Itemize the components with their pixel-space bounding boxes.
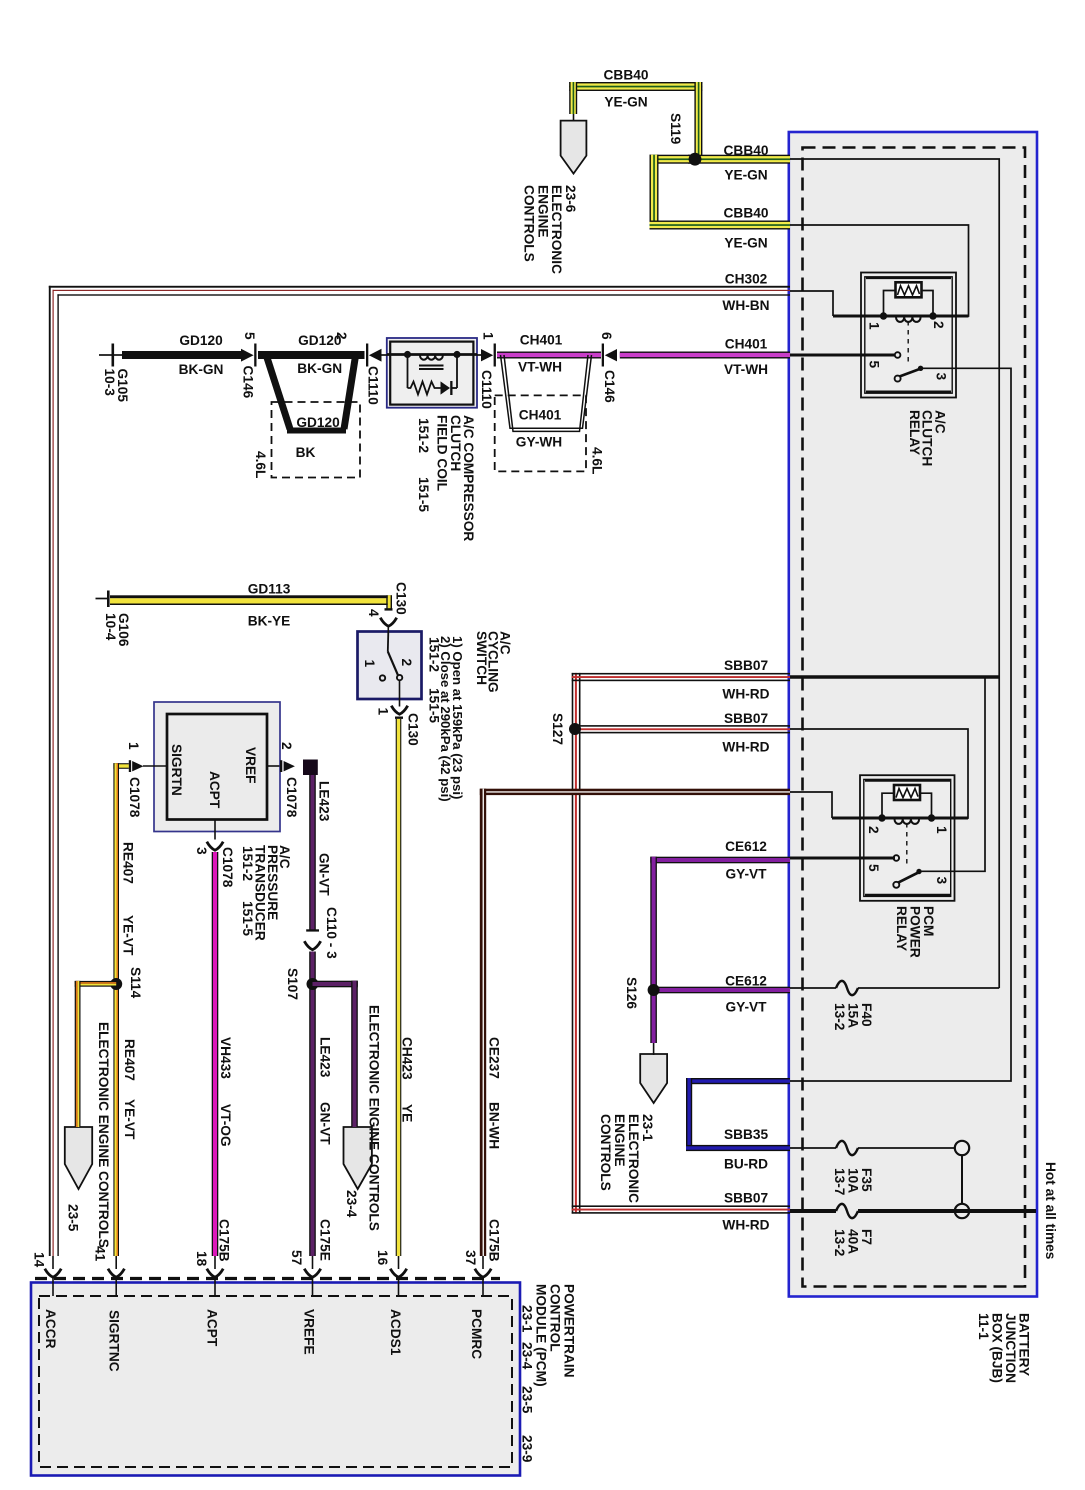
svg-text:CH423: CH423 [400, 1037, 415, 1080]
svg-text:SIGRTN: SIGRTN [169, 744, 184, 796]
svg-text:CBB40: CBB40 [724, 143, 769, 158]
relay switch contacts [895, 352, 901, 358]
svg-text:2: 2 [866, 826, 881, 834]
inline connector C110 pin 3 [306, 929, 319, 931]
svg-text:C110 - 3: C110 - 3 [324, 907, 339, 959]
svg-text:C130: C130 [394, 582, 409, 615]
wire CH423 YE from switch to PCM pin 16 [391, 680, 407, 1256]
svg-text:GY-VT: GY-VT [725, 1000, 767, 1015]
svg-text:WH-BN: WH-BN [722, 298, 769, 313]
inline connector C1110 pin 1 [481, 349, 493, 361]
inline connector C1110 pin 2 [366, 344, 368, 367]
PCM pin 14 entry arrow [45, 1256, 61, 1296]
fuse F7 40A [836, 1204, 858, 1218]
svg-text:23-5: 23-5 [66, 1204, 81, 1232]
svg-text:6: 6 [599, 332, 614, 340]
svg-text:ACDS1: ACDS1 [388, 1309, 403, 1356]
svg-text:VT-OG: VT-OG [218, 1104, 233, 1147]
svg-text:VT-WH: VT-WH [724, 362, 768, 377]
svg-text:GN-VT: GN-VT [318, 1102, 333, 1145]
svg-text:151-2: 151-2 [416, 418, 431, 453]
svg-text:23-4: 23-4 [520, 1342, 535, 1370]
svg-text:CH302: CH302 [725, 272, 768, 287]
wire CBB40 YE-GN row 2 to BJB [650, 221, 791, 230]
svg-text:ACCR: ACCR [43, 1309, 58, 1349]
wire between battery terminals [961, 1155, 963, 1203]
pin 2 [267, 765, 280, 767]
svg-text:VREF: VREF [243, 747, 258, 784]
svg-text:YE-GN: YE-GN [724, 168, 767, 183]
svg-text:VREFE: VREFE [302, 1309, 317, 1355]
svg-text:C1078: C1078 [220, 847, 235, 888]
A/C cycling switch [358, 632, 422, 700]
svg-text:C130: C130 [406, 713, 421, 746]
relay coil resistor [896, 282, 922, 297]
svg-text:GD120: GD120 [296, 415, 340, 430]
svg-text:ACPT: ACPT [207, 771, 222, 809]
svg-text:S114: S114 [128, 967, 143, 999]
connector symbol 23-5 electronic engine controls [65, 1127, 92, 1189]
svg-text:151-2: 151-2 [240, 846, 255, 881]
fuse F40 15A [836, 981, 858, 995]
svg-text:S127: S127 [550, 713, 565, 745]
fuse F35 10A [836, 1141, 858, 1155]
wire RE407 YE-VT from transducer pin 1 to PCM pin 41 [113, 763, 128, 1256]
svg-text:BK: BK [296, 445, 316, 460]
connector C175 dashed line [35, 1277, 500, 1280]
svg-text:3: 3 [194, 847, 209, 855]
svg-text:C1078: C1078 [284, 777, 299, 818]
PCM pin 41 entry arrow [108, 1256, 124, 1296]
svg-text:BK-GN: BK-GN [297, 361, 342, 376]
svg-text:23-1: 23-1 [520, 1305, 535, 1333]
svg-text:ACPT: ACPT [205, 1309, 220, 1347]
svg-text:SBB07: SBB07 [724, 658, 769, 673]
svg-text:151-2: 151-2 [427, 637, 442, 672]
wire CBB40 YE-GN top run from connector 23-6 to splice S119 [569, 82, 702, 156]
svg-text:VT-WH: VT-WH [518, 360, 562, 375]
splice S107 [307, 978, 319, 990]
wire CE612 row2 to fuse F40 [790, 987, 836, 989]
PCM power relay [860, 775, 955, 901]
svg-text:CH401: CH401 [519, 408, 562, 423]
svg-text:C175B: C175B [487, 1219, 502, 1262]
connector symbol 23-4 electronic engine controls [343, 1127, 371, 1189]
PCM pin 16 entry arrow [390, 1256, 406, 1296]
svg-text:CBB40: CBB40 [724, 206, 769, 221]
svg-text:YE-GN: YE-GN [604, 95, 647, 110]
splice S127 [569, 723, 581, 735]
svg-text:C175B: C175B [217, 1219, 232, 1262]
svg-text:RE407: RE407 [122, 1039, 137, 1081]
svg-text:RE407: RE407 [121, 842, 136, 884]
svg-text:1: 1 [867, 322, 882, 330]
svg-text:1: 1 [376, 708, 391, 716]
svg-text:151-5: 151-5 [427, 688, 442, 723]
svg-text:5: 5 [866, 864, 881, 872]
svg-text:37: 37 [463, 1250, 478, 1266]
svg-text:C175E: C175E [318, 1219, 333, 1261]
svg-text:151-5: 151-5 [240, 901, 255, 936]
wire VH433 VT-OG from transducer pin 3 to PCM pin 18 [207, 820, 223, 1257]
wire GD120 segment 2 with loop [258, 351, 365, 359]
wire A/C relay pin 3 down to SBB35 [790, 368, 1011, 1081]
powertrain control module PCM box [31, 1279, 520, 1476]
svg-text:16: 16 [375, 1250, 390, 1266]
svg-text:BN-WH: BN-WH [487, 1102, 502, 1149]
battery terminal circle bottom [955, 1204, 969, 1218]
svg-text:S126: S126 [624, 977, 639, 1009]
svg-text:3: 3 [934, 877, 949, 885]
svg-text:CE237: CE237 [487, 1037, 502, 1079]
svg-text:5: 5 [242, 332, 257, 340]
svg-text:LE423: LE423 [317, 781, 332, 822]
wire LE423 GN-VT from transducer pin 2 to PCM pin 57 [303, 760, 321, 1257]
connector symbol 23-6 electronic engine controls [561, 121, 587, 174]
svg-text:CE612: CE612 [725, 974, 767, 989]
svg-text:41: 41 [93, 1246, 108, 1262]
twisted loop CH401/GY-WH [501, 355, 592, 428]
svg-text:YE-GN: YE-GN [724, 236, 767, 251]
svg-text:4.6L: 4.6L [590, 447, 605, 474]
wire CH302 to A/C relay pin 1 [790, 291, 833, 316]
wire CBB40 row2 to A/C relay pin 2 [790, 225, 969, 316]
svg-text:SBB35: SBB35 [724, 1127, 769, 1142]
ground G106 [96, 598, 108, 600]
wire PCM relay coil line [832, 817, 968, 820]
svg-text:BK-GN: BK-GN [179, 362, 224, 377]
BJB internal black lines [790, 159, 1011, 1204]
battery junction box BJB [789, 132, 1037, 1297]
svg-text:YE-VT: YE-VT [121, 915, 136, 956]
wire CH302 WH-BN from BJB to PCM pin 14 [49, 286, 790, 1256]
wire CH401 VT-WH row [477, 344, 790, 472]
wire CH401 to A/C relay pin 5 [790, 354, 895, 357]
svg-text:SBB07: SBB07 [724, 711, 769, 726]
svg-text:ELECTRONIC ENGINE CONTROLS: ELECTRONIC ENGINE CONTROLS [96, 1022, 111, 1248]
svg-text:BU-RD: BU-RD [724, 1157, 768, 1172]
svg-text:CH401: CH401 [520, 333, 563, 348]
PCM pin 18 entry arrow [207, 1256, 223, 1296]
wire SBB07 row2 to PCM relay pin 1 [790, 729, 968, 818]
svg-text:C146: C146 [602, 370, 617, 403]
svg-text:CE612: CE612 [725, 839, 767, 854]
connector symbol 23-1 electronic engine controls [640, 1054, 667, 1103]
inline connector C146 pin 5 [241, 349, 254, 362]
svg-text:GY-VT: GY-VT [725, 867, 767, 882]
svg-text:CBB40: CBB40 [604, 68, 649, 83]
wire A/C relay coil line [833, 315, 969, 318]
svg-text:2: 2 [334, 332, 349, 340]
ground G105 [99, 354, 112, 356]
svg-text:SBB07: SBB07 [724, 1191, 769, 1206]
wire PCM relay pin 3 to SBB07 feed [919, 677, 985, 871]
svg-text:23-9: 23-9 [520, 1435, 535, 1463]
relay switch contacts [894, 855, 900, 861]
wire CBB40 YE-GN row 1 to BJB [650, 155, 791, 230]
svg-text:PCMRC: PCMRC [469, 1309, 484, 1359]
battery terminal circle top [955, 1141, 969, 1155]
splice S126 [648, 984, 660, 996]
wire GD120 BK-GN row [99, 344, 387, 478]
wire SBB35 to fuse F35 [790, 1147, 836, 1149]
coil windings [420, 356, 443, 360]
relay coil [896, 317, 921, 322]
wire SBB07 WH-RD vertical + three rows [572, 673, 790, 1214]
inline connector C146 pin 6 [602, 344, 604, 367]
svg-text:1: 1 [481, 332, 496, 340]
relay coil resistor [894, 785, 920, 800]
svg-text:GN-VT: GN-VT [317, 853, 332, 896]
svg-text:YE: YE [400, 1104, 415, 1122]
svg-text:GD120: GD120 [179, 333, 223, 348]
wire LE423 branch to connector 23-4 [313, 981, 358, 1127]
A/C pressure transducer [129, 702, 295, 832]
svg-text:YE-VT: YE-VT [122, 1099, 137, 1140]
svg-text:14: 14 [32, 1252, 47, 1268]
svg-text:18: 18 [194, 1251, 209, 1267]
A/C compressor clutch field coil [387, 338, 477, 408]
wire CE612 GY-VT rows + vertical [650, 857, 790, 1055]
wire CE237 to PCM relay pin 2 [790, 792, 832, 818]
svg-text:2: 2 [399, 659, 414, 667]
svg-text:4: 4 [366, 609, 381, 617]
svg-text:2: 2 [931, 321, 946, 329]
svg-text:WH-RD: WH-RD [722, 1218, 769, 1233]
wire CE612 to PCM relay pin 5 [790, 857, 895, 860]
svg-text:WH-RD: WH-RD [722, 687, 769, 702]
svg-text:C1078: C1078 [127, 777, 142, 818]
splice S119 [689, 153, 702, 166]
svg-text:C1110: C1110 [366, 366, 381, 405]
svg-text:1: 1 [934, 826, 949, 834]
svg-text:1: 1 [362, 660, 377, 668]
wire RE407 branch to connector 23-5 [75, 981, 117, 1127]
svg-text:C146: C146 [241, 366, 256, 399]
wire GD113 BK-YE row [96, 591, 397, 633]
svg-text:3: 3 [934, 373, 949, 381]
wire SBB35 BU-RD loop [686, 1078, 790, 1151]
wire SBB07 row1 feed thick [790, 675, 999, 678]
svg-text:CH401: CH401 [725, 337, 768, 352]
svg-text:2: 2 [279, 742, 294, 750]
svg-text:ELECTRONIC ENGINE CONTROLS: ELECTRONIC ENGINE CONTROLS [367, 1005, 382, 1231]
svg-text:151-5: 151-5 [416, 477, 431, 512]
svg-text:GD113: GD113 [248, 582, 291, 597]
wire CBB40 feed inside BJB [790, 159, 999, 988]
svg-text:GY-WH: GY-WH [516, 435, 562, 450]
svg-text:57: 57 [289, 1250, 304, 1266]
relay coil [895, 819, 920, 824]
PCM pin 57 entry arrow [304, 1256, 320, 1296]
suppression resistor and diode loop [408, 355, 458, 395]
svg-text:LE423: LE423 [318, 1037, 333, 1078]
svg-text:23-4: 23-4 [344, 1190, 359, 1218]
svg-text:S107: S107 [285, 968, 300, 1000]
wire CE237 BN-WH vertical + row to PCM power relay [480, 789, 790, 1256]
A/C clutch relay [861, 273, 956, 398]
svg-text:SIGRTNC: SIGRTNC [107, 1310, 122, 1372]
svg-text:BK-YE: BK-YE [248, 613, 291, 628]
svg-text:WH-RD: WH-RD [722, 740, 769, 755]
splice S114 [110, 978, 122, 990]
PCM pin 37 entry arrow [475, 1256, 491, 1296]
svg-text:23-5: 23-5 [520, 1386, 535, 1414]
svg-text:1: 1 [126, 742, 141, 750]
pin 1 [129, 760, 131, 772]
svg-text:S119: S119 [668, 113, 683, 145]
svg-text:C1110: C1110 [479, 370, 494, 409]
svg-text:5: 5 [867, 361, 882, 369]
svg-text:Hot at all times: Hot at all times [1043, 1162, 1058, 1260]
wire SBB07 row3 hot feed thick with fuse F7 [790, 1209, 1036, 1213]
svg-text:4.6L: 4.6L [253, 451, 268, 478]
svg-text:VH433: VH433 [218, 1037, 233, 1079]
